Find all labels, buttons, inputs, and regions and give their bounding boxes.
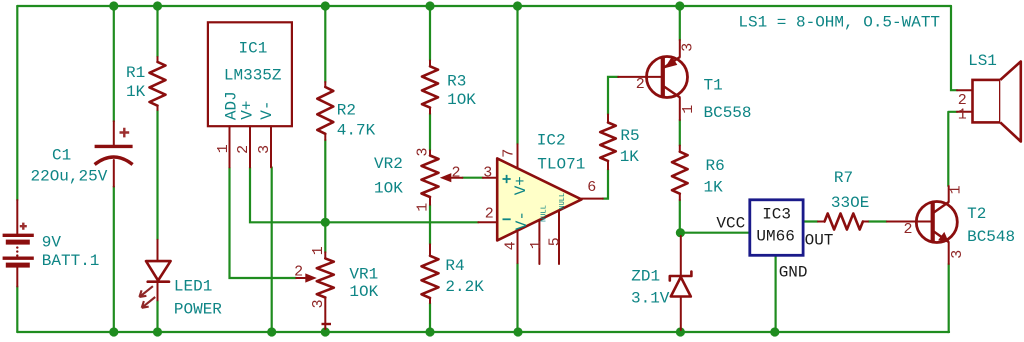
junction top opamp pin7 — [513, 1, 522, 10]
svg-text:2: 2 — [452, 164, 461, 181]
wire left battery branch bottom — [16, 287, 18, 333]
pin 3 emitter T1 — [664, 57, 680, 68]
svg-text:VR1: VR1 — [349, 266, 378, 284]
wire C1 top — [113, 6, 115, 121]
svg-text:LS1 = 8-OHM, O.5-WATT: LS1 = 8-OHM, O.5-WATT — [738, 14, 940, 32]
svg-text:7: 7 — [501, 149, 518, 158]
wire IC1 pin3 to ground — [271, 167, 273, 332]
svg-text:POWER: POWER — [174, 301, 222, 319]
junction bottom R4 — [425, 327, 434, 336]
IC U1 LM335Z box — [208, 22, 292, 167]
svg-text:R1: R1 — [126, 64, 145, 82]
svg-text:R3: R3 — [447, 73, 466, 91]
resistor R6 — [672, 146, 725, 201]
resistor R7 — [818, 169, 869, 230]
pin 6 opamp output — [582, 198, 603, 200]
svg-text:3: 3 — [949, 250, 966, 259]
svg-text:NULL: NULL — [559, 193, 567, 210]
svg-text:22Ou,25V: 22Ou,25V — [31, 167, 108, 185]
svg-text:BC558: BC558 — [704, 104, 752, 122]
junction bottom LED1 — [153, 327, 162, 336]
wire R7 to T2 base — [868, 220, 887, 222]
svg-text:3: 3 — [310, 299, 327, 308]
svg-text:5: 5 — [547, 237, 564, 246]
pin 2 wiper VR2 — [451, 177, 463, 179]
svg-text:6: 6 — [587, 179, 596, 196]
svg-text:2: 2 — [904, 221, 913, 238]
svg-text:2: 2 — [485, 206, 494, 223]
svg-text:1K: 1K — [126, 83, 146, 101]
wire LED1 to ground rail — [156, 300, 158, 332]
svg-text:VR2: VR2 — [374, 155, 403, 173]
svg-text:1: 1 — [415, 203, 432, 212]
pin 1 LS1 — [957, 111, 973, 113]
pin 2 LS1 — [957, 89, 973, 91]
svg-text:3.1V: 3.1V — [631, 289, 670, 307]
svg-text:V+: V+ — [238, 100, 256, 119]
junction top T1 emitter — [675, 1, 684, 10]
wire T1 emitter to top rail — [679, 6, 681, 40]
svg-text:33OE: 33OE — [831, 194, 869, 212]
svg-text:T1: T1 — [704, 77, 723, 95]
pin 3 emitter T2 — [934, 232, 949, 243]
wire VR2 wiper to opamp pin3 — [462, 177, 482, 179]
svg-text:R7: R7 — [834, 169, 853, 187]
svg-text:T2: T2 — [967, 205, 986, 223]
resistor R5 — [600, 115, 639, 170]
svg-text:4: 4 — [502, 241, 519, 250]
wire opamp pin6 to R5 — [603, 169, 608, 198]
pin 1 IC1 — [229, 126, 231, 167]
wire R3 to VR2 — [429, 114, 431, 151]
svg-text:OUT: OUT — [805, 231, 834, 249]
svg-text:1K: 1K — [620, 148, 640, 166]
svg-text:C1: C1 — [52, 147, 71, 165]
svg-text:IC3: IC3 — [762, 205, 791, 223]
wire opamp pin4 to ground — [516, 263, 518, 332]
resistor R3 — [422, 61, 476, 114]
junction bottom opamp pin4 — [513, 327, 522, 336]
svg-text:ZD1: ZD1 — [631, 267, 660, 285]
pin 1 collector T1 — [664, 87, 680, 98]
svg-text:R2: R2 — [337, 102, 356, 120]
svg-text:3: 3 — [415, 147, 432, 156]
wire IC1 pin2 to opamp pin2 — [250, 167, 478, 222]
svg-text:V-: V- — [258, 100, 276, 119]
svg-text:1: 1 — [310, 246, 327, 255]
wire R2 top — [324, 6, 326, 82]
wire R5 top to T1 base — [608, 77, 618, 115]
wire left battery branch top — [16, 6, 18, 200]
capacitor C1 — [31, 121, 133, 186]
junction top R3 — [425, 1, 434, 10]
LED LED1 — [139, 240, 222, 319]
svg-text:4.7K: 4.7K — [337, 122, 376, 140]
pin 2 base T1 — [618, 76, 661, 78]
wire R1 to LED1 — [156, 110, 158, 240]
svg-text:1K: 1K — [704, 179, 724, 197]
svg-text:V+: V+ — [512, 176, 530, 195]
wire top rail — [17, 5, 951, 7]
wire VR2 bottom to R4 top — [429, 205, 431, 245]
svg-text:1OK: 1OK — [374, 180, 403, 198]
pin 3 opamp — [483, 177, 497, 179]
junction bottom IC1 pin3 — [267, 327, 276, 336]
pin 2 opamp — [478, 221, 497, 223]
pin 2 IC1 — [249, 126, 251, 167]
junction top R2 — [321, 1, 330, 10]
wire R4 bottom — [429, 303, 431, 332]
svg-text:1OK: 1OK — [349, 283, 378, 301]
svg-text:BATT.1: BATT.1 — [42, 252, 100, 270]
svg-text:R5: R5 — [620, 127, 639, 145]
wire bottom rail — [17, 331, 949, 333]
wire R3 top — [429, 6, 431, 61]
svg-text:9V: 9V — [42, 233, 62, 251]
wire IC1 pin1 to VR1 wiper — [230, 167, 297, 278]
speaker LS1 — [957, 52, 1021, 142]
wire top rail drop to LS1 pin2 — [951, 6, 957, 90]
pin 1 collector T2 — [934, 202, 949, 213]
svg-text:2: 2 — [294, 263, 303, 280]
svg-text:1: 1 — [948, 185, 965, 194]
wire R1 top — [156, 6, 158, 57]
wire T1 collector to R6 — [679, 120, 681, 146]
svg-text:3: 3 — [679, 43, 696, 52]
svg-text:3: 3 — [256, 145, 273, 154]
pin 1 opamp null — [538, 220, 540, 264]
resistor R4 — [422, 244, 485, 303]
resistor R1 — [126, 57, 166, 110]
junction bottom ZD1 — [676, 327, 685, 336]
svg-text:R4: R4 — [445, 257, 464, 275]
junction top C1 — [109, 1, 118, 10]
svg-text:1: 1 — [958, 107, 967, 124]
wire IC3 OUT to R7 — [802, 220, 818, 222]
svg-text:1: 1 — [680, 105, 697, 114]
svg-text:LED1: LED1 — [174, 278, 212, 296]
svg-text:R6: R6 — [706, 157, 725, 175]
potentiometer VR2 — [374, 147, 462, 211]
svg-text:2: 2 — [235, 145, 252, 154]
junction node VCC — [676, 228, 685, 237]
op-amp U2 TL071 — [478, 131, 603, 264]
pin 5 opamp null — [558, 210, 560, 264]
zener diode ZD1 — [631, 236, 691, 330]
junction top R1 — [153, 1, 162, 10]
svg-text:UM66: UM66 — [756, 228, 794, 246]
wire VCC node to IC3 — [680, 232, 749, 234]
junction node inverting input — [321, 218, 330, 227]
potentiometer VR1 — [294, 246, 379, 329]
svg-text:1: 1 — [528, 240, 545, 249]
svg-text:2.2K: 2.2K — [445, 278, 484, 296]
svg-text:IC1: IC1 — [239, 39, 268, 57]
junction bottom VR1 — [321, 327, 330, 336]
ground bar VR1 pin3 — [322, 323, 332, 325]
junction bottom IC3 GND — [770, 327, 779, 336]
svg-text:VCC: VCC — [716, 214, 745, 232]
pin 2 wiper VR1 — [296, 277, 305, 279]
svg-text:1: 1 — [215, 144, 232, 153]
transistor Q1 BC558 PNP — [618, 40, 751, 122]
wire IC3 GND to ground rail — [774, 255, 776, 332]
svg-text:BC548: BC548 — [967, 228, 1015, 246]
wire T2 emitter to ground rail — [948, 264, 950, 332]
transistor Q2 BC548 NPN — [887, 185, 1015, 264]
pin 7 opamp V+ — [517, 144, 519, 168]
svg-text:GND: GND — [779, 263, 808, 281]
pin 3 IC1 — [270, 126, 272, 167]
wire C1 bottom — [113, 187, 115, 332]
wire opamp pin7 supply — [516, 6, 518, 144]
wire node to VR1 top — [324, 222, 326, 252]
wire R2 bottom to node — [324, 140, 326, 222]
svg-text:3: 3 — [483, 164, 492, 181]
svg-text:TLO71: TLO71 — [537, 156, 585, 174]
wire LS1 pin1 to T2 collector — [948, 112, 957, 186]
battery BATT.1 — [3, 200, 100, 287]
pin 2 base T2 — [887, 221, 931, 223]
IC U3 UM66 box — [716, 200, 833, 281]
resistor R2 — [317, 82, 375, 140]
wire R6 bottom to VCC node — [679, 200, 681, 233]
svg-text:IC2: IC2 — [537, 131, 566, 149]
svg-text:2: 2 — [636, 76, 645, 93]
pin 4 opamp V- — [517, 231, 519, 264]
svg-text:1OK: 1OK — [447, 91, 476, 109]
svg-text:LS1: LS1 — [968, 52, 997, 70]
svg-text:LM335Z: LM335Z — [224, 67, 282, 85]
junction bottom C1 — [109, 327, 118, 336]
svg-text:NULL: NULL — [541, 205, 549, 222]
svg-text:V-: V- — [513, 211, 531, 230]
